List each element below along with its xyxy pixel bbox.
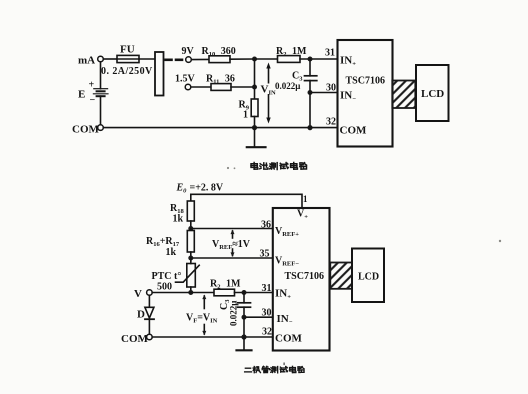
svg-text:30: 30 [326,83,336,94]
LCD connector (zebra strip, bottom) [330,263,352,289]
resistor R2 1M (bottom) [210,279,241,296]
wire R18 to node G [190,221,192,231]
terminal mA [78,55,103,67]
svg-text:1k: 1k [173,214,184,225]
svg-text:R10 360: R10 360 [202,46,236,58]
wire fuse to selector block [139,58,155,60]
wire pin36 VREF+ line [191,228,273,230]
capacitor C3 0.022u [275,59,317,93]
resistor R16+R17 1k [146,231,194,259]
node K on IN- line [242,315,247,320]
battery E [78,80,108,106]
wire 9V to R10 [191,58,209,60]
LCD display (bottom) [352,249,384,303]
svg-text:E: E [78,89,85,101]
resistor R18 1k [170,201,194,225]
wire pin30 IN- line [244,316,273,318]
wire R2 to pin31 of U1 [300,58,338,60]
wire R11 to node C [231,86,255,88]
wire COM rail to pin32 [152,336,273,338]
node G [188,226,193,231]
svg-text:1: 1 [303,194,308,204]
node H [188,256,193,261]
svg-text:35: 35 [260,249,270,260]
svg-text:0.022μ: 0.022μ [229,301,239,326]
svg-text:R2 1M: R2 1M [276,46,307,58]
svg-text:LCD: LCD [421,88,444,100]
svg-text:D: D [137,309,145,321]
node A [252,57,257,62]
fuse FU 0.2A/250V [101,44,153,78]
wire node A to R2 [255,58,278,60]
node D on COM rail [252,125,257,130]
wire E0 top rail [191,194,302,208]
svg-text:PTC t°: PTC t° [152,271,182,282]
svg-text:500: 500 [157,282,172,293]
wire E0 to R18 [190,194,192,201]
annotation VIN measurement arrow [260,63,278,124]
wire dashed plug link to 9V [166,58,172,61]
node J [242,290,247,295]
node C [252,85,257,90]
wire pin30 IN- line [310,92,338,94]
terminal V [134,288,152,300]
svg-text:32: 32 [326,117,336,128]
svg-text:31: 31 [262,283,272,294]
terminal 9V [182,46,195,62]
node B on IN+ line [308,57,313,62]
svg-text:1.5V: 1.5V [175,74,196,85]
svg-text:0. 2A/250V: 0. 2A/250V [101,66,153,77]
annotation VF=VIN measurement arrow [186,295,218,336]
wire R10 to node A [230,58,255,60]
svg-text:TSC7106: TSC7106 [285,271,324,282]
resistor R2 1M [276,46,307,62]
LCD display [416,65,449,121]
svg-text:30: 30 [262,308,272,319]
wire C3 column down to COM rail [309,93,311,128]
svg-text:FU: FU [120,44,135,56]
svg-text:R2 1M: R2 1M [210,279,241,291]
resistor R11 36 [206,74,235,91]
wire pin35 VREF- line [191,257,273,259]
IC U2 TSC7106 [273,208,330,351]
wire PTC stems [190,258,192,264]
wire R9 to bottom rail [254,117,256,128]
wire R16 to node H [190,252,192,261]
caption 电池测试电路 [251,162,307,169]
stray print dots [227,167,501,365]
terminal 1.5V [175,74,196,90]
resistor R9 1 [239,99,259,121]
wire R2b to pin31 [235,292,273,294]
wire node A down through node C to R9 [254,59,256,99]
capacitor C3 0.022u (bottom) [219,293,251,327]
svg-text:COM: COM [275,333,303,345]
svg-text:VREF≈1V: VREF≈1V [212,239,251,251]
svg-text:mA: mA [78,55,95,67]
wire mA to fuse [103,58,117,60]
node E on IN- line [308,90,313,95]
svg-text:−: − [90,95,96,106]
thermistor PTC 500 [152,264,200,293]
node I [188,290,193,295]
svg-text:LCD: LCD [358,272,379,283]
svg-text:TSC7106: TSC7106 [346,76,385,87]
svg-text:1: 1 [243,110,248,121]
svg-text:1k: 1k [166,247,177,258]
svg-text:36: 36 [261,220,271,231]
svg-text:0.022μ: 0.022μ [275,81,300,91]
wire V to R2b [152,292,214,294]
wire 1.5V to R11 [191,86,211,88]
svg-text:V: V [134,288,142,300]
wire mA down to battery [100,62,102,89]
svg-text:9V: 9V [182,46,195,57]
resistor R10 360 [202,46,236,63]
IC U1 TSC7106 [338,40,393,147]
LCD connector (zebra strip) [392,81,415,109]
svg-text:COM: COM [340,125,368,137]
ground [247,128,266,148]
svg-text:COM: COM [72,124,100,136]
wire COM bottom rail to pin32 [103,127,337,129]
diode D [137,295,154,334]
node L on COM rail [241,334,246,339]
terminal COM [72,124,103,136]
svg-text:31: 31 [325,48,335,59]
svg-text:32: 32 [262,327,272,338]
node F on COM rail [307,125,312,130]
battery selector block [155,52,164,96]
wire C3b column to COM rail [243,317,245,337]
annotation VREF measurement arrow [212,230,251,258]
svg-text:COM: COM [121,333,149,345]
caption 二极管测试电路 [245,366,304,372]
terminal COM (bottom) [121,333,152,345]
wire battery to COM rail [100,96,102,125]
ground (bottom) [237,337,252,350]
svg-text:=+2. 8V: =+2. 8V [190,183,224,194]
